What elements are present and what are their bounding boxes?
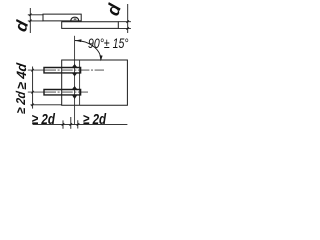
plan view: bottom dimension line xyxy=(33,123,128,125)
plan view: bar 1 centerline xyxy=(28,69,45,71)
svg-text:≥ 2d: ≥ 2d xyxy=(32,111,56,128)
plan view: angle arc arrowhead bottom (at plate top edge) xyxy=(100,55,103,61)
plan view: bar 2 centerline xyxy=(28,91,45,93)
plan view: bottom extension line from plate left edge xyxy=(62,120,64,128)
plan view: bottom extension line right xyxy=(77,120,79,128)
plan view: angle dimension arc xyxy=(75,41,101,61)
top view: weld nugget inner dot xyxy=(74,18,77,20)
plan view: weld axis vertical line xyxy=(74,36,76,125)
plan view: angle arc arrowhead left (at vertical axis) xyxy=(75,39,81,42)
top view: extension lines for right thickness dimension d xyxy=(118,22,131,29)
svg-text:≥ 2d: ≥ 2d xyxy=(13,90,28,115)
top view: weld nugget dome xyxy=(71,17,79,20)
plan view: plate bottom edge extension to left dim line xyxy=(31,104,62,106)
plan view: plate outline xyxy=(62,60,128,105)
plan view: weld fillet below bar 2 xyxy=(72,95,77,99)
top view: extension lines for left thickness dimension d xyxy=(28,15,43,21)
plan view: bar 2 outline xyxy=(44,90,81,95)
plan view: bottom dimension ticks xyxy=(62,123,80,126)
top view: right dimension 45-degree ticks xyxy=(126,20,129,29)
plan view: left vertical dimension line xyxy=(32,67,34,109)
plan view: inner vertical line (bar end line) xyxy=(79,60,81,105)
plan view: weld fillet above bar 1 xyxy=(72,64,77,67)
plan view: bottom extension line middle xyxy=(70,117,72,129)
top view: left dimension line xyxy=(29,8,31,33)
plan view: weld fillet below bar 1 xyxy=(72,73,77,76)
svg-text:d: d xyxy=(102,1,125,19)
top view: upper bar (plate 1) outline xyxy=(43,14,81,21)
plan view: weld fillet above bar 2 xyxy=(72,86,77,89)
top view: lower plate (plate 2) outline xyxy=(62,22,119,29)
plan view: left dimension ticks xyxy=(31,69,34,106)
svg-text:90°± 15°: 90°± 15° xyxy=(88,36,129,52)
svg-text:≥ 2d: ≥ 2d xyxy=(83,111,107,128)
svg-text:d: d xyxy=(11,18,32,34)
top view: right dimension line xyxy=(127,4,129,33)
svg-text:≥ 4d: ≥ 4d xyxy=(14,61,29,90)
top view: left dimension 45-degree ticks xyxy=(29,14,32,23)
plan view: bar 1 outline xyxy=(44,68,81,73)
